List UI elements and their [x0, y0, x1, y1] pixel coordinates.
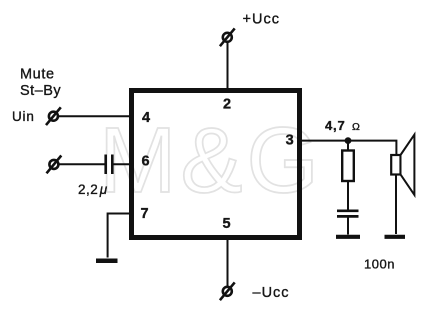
wire speaker to ground [395, 175, 397, 235]
terminal +Ucc [220, 28, 235, 46]
wire capacitor C2 to ground [347, 218, 349, 235]
resistor R1 4,7 Ohm [342, 151, 354, 182]
node junction at resistor [345, 137, 352, 144]
terminal -Ucc [220, 282, 235, 300]
svg-text:–Ucc: –Ucc [253, 285, 290, 301]
svg-text:6: 6 [141, 154, 149, 170]
ground (speaker) [385, 235, 406, 239]
wire pin 7 to ground [108, 214, 131, 258]
terminal pin6 input [47, 156, 62, 174]
svg-text:2,2μ: 2,2μ [78, 182, 108, 197]
svg-text:2: 2 [223, 97, 231, 113]
svg-text:100n: 100n [364, 257, 395, 272]
wire pin 2 to +Ucc terminal [227, 41, 229, 90]
wire pin6 input terminal to capacitor C1 [60, 163, 105, 165]
ground (pin 7) [96, 258, 118, 263]
wire pin 3 to speaker [300, 141, 396, 155]
svg-text:+Ucc: +Ucc [243, 12, 280, 28]
wire junction to resistor R1 [347, 141, 349, 151]
svg-text:5: 5 [222, 216, 230, 232]
terminal Uin [46, 107, 61, 125]
speaker LS1 [391, 135, 414, 195]
svg-text:4,7Ω: 4,7Ω [325, 118, 361, 133]
svg-text:7: 7 [140, 206, 148, 222]
svg-text:Uin: Uin [12, 109, 35, 124]
wire pin 5 to -Ucc terminal [227, 238, 229, 287]
ground (capacitor C2) [336, 235, 360, 239]
wire Uin terminal to pin 4 [59, 115, 131, 117]
op-amp IC U1 (power amplifier box) [132, 91, 300, 238]
svg-text:St–By: St–By [20, 83, 61, 99]
svg-text:Mute: Mute [20, 66, 55, 82]
wire resistor R1 to capacitor C2 [347, 181, 349, 210]
capacitor C2 100n (plates) [337, 211, 359, 217]
capacitor C1 2,2u (series plates) [106, 155, 113, 175]
wire capacitor C1 to pin 6 [114, 163, 132, 165]
svg-text:4: 4 [142, 110, 150, 126]
svg-text:3: 3 [286, 133, 294, 149]
